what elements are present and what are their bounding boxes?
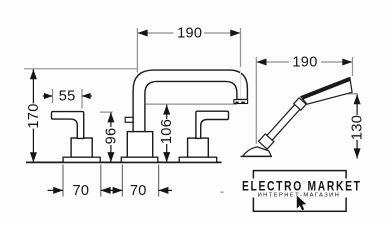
106 dimension line xyxy=(166,105,168,163)
hand shower head xyxy=(301,78,352,105)
hand shower collar xyxy=(259,134,274,149)
spout tube xyxy=(133,70,247,135)
right handle lever xyxy=(196,111,229,138)
top 190 dimension line xyxy=(137,32,240,34)
hand shower holder base line xyxy=(241,155,273,157)
deck / mounting surface line xyxy=(26,161,222,163)
130 dimension line xyxy=(356,94,358,158)
extension line segment over spout tube xyxy=(240,70,242,98)
svg-text:70: 70 xyxy=(72,183,89,199)
spout outlet aerator lip xyxy=(234,100,248,104)
reference line spout outlet level for 106 dim xyxy=(143,103,237,105)
55 dimension xyxy=(43,95,53,97)
svg-text:190: 190 xyxy=(292,55,317,71)
70 dimensions line xyxy=(48,189,64,191)
left handle escutcheon xyxy=(63,157,100,162)
extension line right of right 190 dim xyxy=(352,57,354,76)
right 190 dimension line xyxy=(256,61,352,63)
svg-text:96: 96 xyxy=(103,128,119,145)
logo frame xyxy=(253,171,346,212)
stray small mark xyxy=(221,192,224,193)
right handle body xyxy=(188,138,209,157)
extension line right of top 190 dim xyxy=(240,28,242,67)
right handle escutcheon xyxy=(179,157,217,162)
logo cursor arrow xyxy=(297,196,307,211)
svg-text:ELECTRO MARKET: ELECTRO MARKET xyxy=(242,178,362,194)
extension lines of 70 dims xyxy=(62,165,64,197)
svg-text:190: 190 xyxy=(177,26,202,42)
hand shower head top dark edge xyxy=(301,78,351,100)
spout escutcheon xyxy=(121,157,158,162)
spout diverter nub xyxy=(125,117,133,122)
spout body xyxy=(127,132,152,158)
svg-text:170: 170 xyxy=(26,103,42,128)
left handle body xyxy=(71,138,92,157)
hand shower holder bell xyxy=(243,147,272,156)
extension line left of right 190 dim xyxy=(255,57,257,144)
svg-text:55: 55 xyxy=(59,89,76,105)
svg-text:70: 70 xyxy=(130,183,147,199)
extension line left of top 190 dim xyxy=(136,28,138,73)
svg-text:130: 130 xyxy=(350,115,366,140)
left handle lever xyxy=(52,112,84,139)
170 dimension line xyxy=(32,69,34,162)
logo text ELECTRO MARKET xyxy=(242,178,362,194)
hand shower neck xyxy=(294,98,306,110)
96 dimension line xyxy=(110,112,112,162)
reference tick top of 96 dim xyxy=(100,111,113,113)
svg-text:106: 106 xyxy=(159,119,175,144)
extension ticks of 55 dim xyxy=(52,89,54,103)
hand shower handle xyxy=(259,97,307,149)
reference line top of 170 dim xyxy=(24,68,138,70)
reference tick top of 130 dim xyxy=(343,93,358,95)
